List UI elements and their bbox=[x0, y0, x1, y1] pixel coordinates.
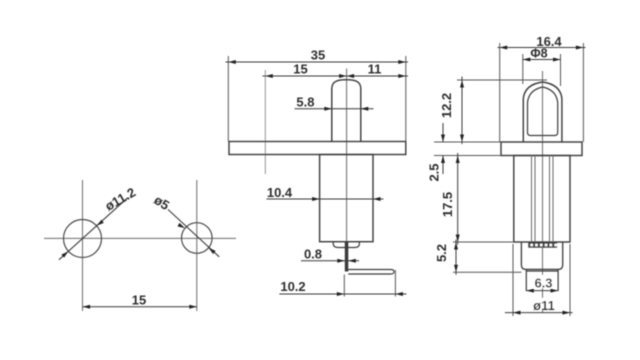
arrowhead at lower-right edge of small circle bbox=[209, 248, 216, 254]
svg-text:15: 15 bbox=[293, 62, 307, 77]
arrowhead 5.2 top bbox=[454, 242, 458, 250]
arrowhead 10.2 left bbox=[337, 292, 345, 296]
arrowhead 2.5 top bbox=[441, 135, 445, 143]
svg-text:10.2: 10.2 bbox=[280, 279, 305, 294]
arrowhead 12.2 bottom bbox=[460, 135, 464, 143]
arrowhead at upper-left edge of small circle bbox=[178, 223, 186, 228]
arrowhead 6.3 left bbox=[526, 289, 534, 293]
arrowhead 10.4 right bbox=[373, 197, 381, 201]
dimension 12.2 line bbox=[461, 77, 463, 145]
svg-text:10.4: 10.4 bbox=[267, 185, 293, 200]
inner rod line 4 bbox=[552, 156, 554, 243]
vertical center line hole 1 bbox=[82, 180, 84, 311]
vertical center line hole 2 bbox=[196, 180, 198, 311]
dimension dia11: extension left bbox=[512, 244, 514, 316]
arrowhead 17.5 top bbox=[456, 156, 460, 164]
dimension 35: extension line left bbox=[227, 56, 229, 142]
arrowhead phi8 left bbox=[523, 58, 531, 62]
extension line from lug right end bbox=[394, 270, 396, 297]
button dome inner bbox=[528, 87, 558, 136]
svg-text:6.3: 6.3 bbox=[534, 276, 552, 291]
dimension dia11 line bbox=[505, 312, 573, 314]
dimension phi8: extension left bbox=[522, 54, 524, 84]
arrowhead 5.2 bottom bbox=[454, 265, 458, 273]
arrowhead 12.2 top bbox=[460, 80, 464, 88]
leader line D11.2 bbox=[59, 198, 128, 260]
arrowhead 10.2 right bbox=[395, 292, 403, 296]
arrowhead 17.5 bottom bbox=[456, 235, 460, 243]
dimension 2.5 lower tail bbox=[442, 156, 444, 175]
arrowhead 11 right bbox=[398, 74, 406, 78]
terminal pin bbox=[345, 242, 349, 272]
flange plate side bbox=[501, 142, 582, 156]
svg-text:ø11: ø11 bbox=[533, 298, 555, 313]
arrowhead 2.5 bottom bbox=[441, 156, 445, 164]
bottom stub bbox=[526, 269, 558, 291]
threaded body bbox=[320, 155, 373, 242]
arrowhead 10.4 left bbox=[312, 197, 320, 201]
svg-text:0.8: 0.8 bbox=[304, 246, 322, 261]
arrowhead 5.8 left bbox=[324, 107, 332, 111]
center line bbox=[542, 71, 544, 313]
label dia11 halo bbox=[528, 298, 560, 310]
svg-text:5.8: 5.8 bbox=[296, 94, 314, 109]
dimension 35: extension line right bbox=[405, 56, 407, 142]
arrowhead phi8 right bbox=[553, 58, 561, 62]
arrowhead 16.4 left bbox=[500, 46, 508, 50]
arrowhead 5.8 right bbox=[361, 107, 369, 111]
flange plate bbox=[229, 142, 406, 155]
push button cap bbox=[332, 80, 361, 142]
leader line D5 bbox=[168, 210, 219, 257]
arrowhead at upper-right edge of big circle bbox=[97, 220, 104, 226]
dimension 5.2 line bbox=[455, 240, 457, 275]
inner rod line 3 bbox=[549, 156, 551, 243]
collar below body bbox=[333, 242, 359, 248]
dimension 17.5 line bbox=[457, 153, 459, 245]
label 6.3 halo bbox=[531, 275, 556, 288]
flange extension lines to left bbox=[434, 141, 501, 143]
inner rod line 2 bbox=[534, 156, 536, 243]
inner rod line 1 bbox=[531, 156, 533, 243]
extension line body bottom bbox=[453, 241, 514, 243]
dimension 6.3 line bbox=[526, 290, 558, 292]
center line of plunger bbox=[346, 69, 348, 251]
dimension phi8: extension right bbox=[560, 54, 562, 86]
extension line from pin left bbox=[343, 275, 345, 297]
arrowhead 0.8 right bbox=[348, 259, 356, 263]
arrowhead at lower-left edge of big circle bbox=[61, 251, 68, 257]
hole circle D5 bbox=[182, 223, 213, 254]
dimension 15/11 line bbox=[263, 75, 409, 77]
dimension 16.4 line bbox=[498, 47, 586, 49]
svg-text:15: 15 bbox=[132, 293, 146, 308]
dimension 12.2: top extension line bbox=[457, 79, 547, 81]
svg-text:12.2: 12.2 bbox=[439, 93, 454, 118]
button dome outer bbox=[523, 82, 562, 142]
body side bbox=[514, 156, 570, 243]
knurled strip with teeth bbox=[528, 242, 557, 248]
dimension dia11: extension right bbox=[569, 244, 571, 316]
nut section bbox=[521, 242, 562, 269]
arrowhead 11 left at center bbox=[347, 74, 355, 78]
arrowhead left of 15 bbox=[83, 305, 91, 309]
dimension 2.5 upper tail bbox=[442, 123, 444, 142]
arrowhead dia11 left bbox=[513, 311, 521, 315]
dimension 35 line bbox=[226, 61, 409, 63]
extension line at x=265 (hole center reference) bbox=[264, 70, 266, 174]
solder lug strip bbox=[347, 270, 395, 275]
dimension 0.8 line bbox=[301, 260, 359, 262]
hole circle D11.2 bbox=[64, 220, 102, 258]
dimension 5.8 line bbox=[295, 108, 374, 110]
arrowhead 15 left bbox=[265, 74, 273, 78]
svg-text:11: 11 bbox=[368, 62, 382, 77]
arrowhead right of 15 bbox=[189, 305, 197, 309]
arrowhead dia11 right bbox=[563, 311, 571, 315]
horizontal center line through both holes bbox=[44, 237, 236, 239]
dimension line 15 (hole spacing) bbox=[83, 306, 198, 308]
arrowhead 15 right at center bbox=[339, 74, 347, 78]
svg-text:35: 35 bbox=[311, 48, 325, 63]
arrowhead 35 right bbox=[398, 60, 406, 64]
arrowhead 0.8 left bbox=[337, 259, 345, 263]
dimension 10.2 line bbox=[279, 293, 406, 295]
svg-text:17.5: 17.5 bbox=[440, 192, 455, 217]
svg-text:ø11.2: ø11.2 bbox=[102, 184, 138, 213]
extension line nut bottom bbox=[453, 271, 521, 273]
svg-text:2.5: 2.5 bbox=[427, 163, 442, 181]
dimension phi8 line bbox=[523, 59, 561, 61]
dimension 16.4: extension right bbox=[582, 43, 584, 142]
arrowhead 16.4 right bbox=[576, 46, 584, 50]
dimension 16.4: extension left bbox=[499, 43, 501, 142]
arrowhead 35 left bbox=[228, 60, 236, 64]
svg-text:Φ8: Φ8 bbox=[530, 47, 547, 61]
dimension 10.4 line bbox=[267, 198, 384, 200]
svg-text:5.2: 5.2 bbox=[434, 244, 449, 262]
arrowhead 6.3 right bbox=[551, 289, 559, 293]
